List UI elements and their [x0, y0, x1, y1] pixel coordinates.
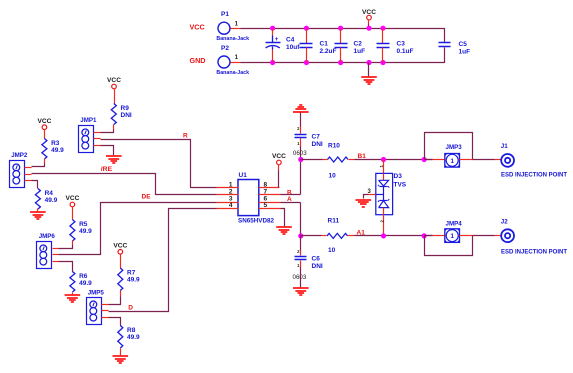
- svg-text:4: 4: [229, 202, 233, 209]
- wire A to A1 column: [281, 203, 301, 236]
- wire bottom rail GND: [241, 48, 445, 63]
- op-amp U1 SN65HVD82 body: [238, 172, 275, 224]
- wire B to B1 column: [281, 160, 301, 195]
- svg-text:2: 2: [229, 189, 233, 196]
- capacitor C5 1uF: [439, 41, 471, 56]
- ground (R6): [65, 295, 81, 302]
- svg-text:R11: R11: [328, 217, 340, 224]
- svg-text:C6: C6: [312, 255, 321, 262]
- junction dot A1/JMP4: [422, 233, 427, 238]
- svg-text:A1: A1: [357, 230, 366, 237]
- svg-text:1: 1: [450, 233, 454, 240]
- JMP2 pin stubs: [25, 168, 32, 181]
- svg-text:B1: B1: [358, 153, 367, 160]
- D3 pin3 stub and label: [367, 189, 375, 195]
- wire JMP1 pin3 to ground: [101, 146, 114, 156]
- wire top rail VCC: [241, 29, 445, 43]
- resistor R10 10: [328, 143, 355, 180]
- resistor R8 49.9: [118, 326, 140, 356]
- net label B: [287, 189, 292, 196]
- junction dots bottom rail: [270, 60, 386, 65]
- ground (R8): [113, 356, 129, 363]
- wire A1 to JMP4 pin1: [425, 235, 445, 237]
- U1 left pin stubs: [217, 188, 239, 209]
- capacitor C7 DNI: [295, 126, 323, 148]
- svg-text:JMP2: JMP2: [11, 152, 28, 159]
- junction dot B1/D3: [381, 157, 386, 162]
- svg-text:D3: D3: [394, 173, 403, 180]
- svg-text:49.9: 49.9: [51, 147, 64, 154]
- ground (C6): [293, 288, 309, 295]
- power symbol VCC (top rail): [362, 9, 376, 29]
- svg-text:C7: C7: [312, 133, 321, 140]
- svg-text:C1: C1: [320, 41, 329, 48]
- diode D3 TVS: [376, 160, 407, 215]
- svg-text:2.2uF: 2.2uF: [320, 48, 337, 55]
- wire R3 to JMP2 pin1: [32, 164, 45, 167]
- connector P2 Banana-Jack: [216, 45, 249, 76]
- wire JMP3 bypass loop: [425, 133, 473, 160]
- wire C7 to B1 junction: [300, 147, 302, 160]
- JMP6 pin stubs: [53, 249, 59, 262]
- net label D: [128, 305, 133, 312]
- svg-text:0603: 0603: [293, 274, 307, 281]
- ground (C7, inverted): [293, 105, 309, 112]
- svg-text:JMP5: JMP5: [88, 289, 105, 296]
- wire ground to C7: [300, 113, 302, 127]
- ground (D3): [356, 200, 372, 207]
- junction dot B1 left: [298, 157, 303, 162]
- C6 footprint label 0603: [293, 274, 307, 281]
- jumper JMP3: [445, 144, 462, 167]
- net label A: [287, 196, 292, 203]
- wire JMP3 to J1: [473, 159, 502, 161]
- wire JMP5 pin3 to R8: [109, 318, 121, 326]
- capacitor C3 0.1uF: [377, 29, 414, 63]
- svg-text:1uF: 1uF: [459, 49, 471, 56]
- svg-text:VCC: VCC: [362, 9, 376, 16]
- resistor R5 49.9: [70, 220, 92, 245]
- jumper JMP2: [10, 152, 28, 187]
- svg-text:/RE: /RE: [101, 166, 113, 173]
- svg-text:DNI: DNI: [312, 263, 323, 270]
- svg-text:TVS: TVS: [394, 182, 407, 189]
- svg-text:C5: C5: [459, 41, 468, 48]
- junction dot A1/D3: [381, 233, 386, 238]
- svg-text:8: 8: [264, 182, 268, 189]
- JMP3 pin2 stub: [460, 159, 473, 161]
- C7 footprint label 0603: [293, 150, 307, 157]
- jumper JMP4: [445, 220, 462, 242]
- U1 right pin numbers: [264, 182, 268, 210]
- D3 pin2 wire to A1: [380, 215, 385, 236]
- resistor R7 49.9: [118, 268, 140, 297]
- U1 right pin stubs: [259, 188, 281, 209]
- capacitor C4 10uf (polarized): [266, 29, 301, 63]
- svg-text:DE: DE: [142, 193, 152, 200]
- jumper JMP1: [79, 117, 98, 152]
- svg-text:P1: P1: [221, 11, 229, 18]
- capacitor C6 DNI: [295, 236, 323, 270]
- svg-text:Banana-Jack: Banana-Jack: [216, 36, 249, 42]
- wire C6 to ground: [300, 268, 302, 288]
- svg-text:49.9: 49.9: [45, 197, 58, 204]
- svg-text:R3: R3: [51, 140, 60, 147]
- svg-text:C2: C2: [354, 41, 363, 48]
- svg-text:VCC: VCC: [37, 118, 51, 125]
- net label B1: [358, 153, 367, 160]
- svg-text:0.1uF: 0.1uF: [397, 48, 414, 55]
- wire D3 pin3 to ground: [364, 195, 369, 199]
- net label VCC (P1): [190, 22, 205, 31]
- power symbol VCC (R5): [65, 195, 79, 219]
- junction dot B1/JMP3: [422, 157, 427, 162]
- wire B1 junction to R10: [301, 159, 328, 161]
- JMP4 pin2 stub: [460, 235, 473, 237]
- resistor R11 10: [327, 217, 355, 254]
- svg-text:VCC: VCC: [113, 243, 127, 250]
- svg-text:1: 1: [229, 182, 233, 189]
- resistor R4 49.9: [35, 189, 57, 212]
- svg-text:JMP4: JMP4: [446, 220, 463, 227]
- svg-text:D: D: [128, 305, 133, 312]
- wire A1 junction to R11: [301, 235, 327, 237]
- svg-text:1uF: 1uF: [354, 48, 366, 55]
- svg-text:R9: R9: [121, 105, 130, 112]
- resistor R3 49.9: [42, 139, 64, 164]
- svg-text:Banana-Jack: Banana-Jack: [216, 70, 249, 76]
- svg-text:10: 10: [329, 172, 337, 179]
- svg-text:R7: R7: [127, 269, 136, 276]
- wire R7 to JMP5 pin1: [109, 297, 121, 305]
- wire JMP4 to J2: [473, 235, 502, 237]
- connector J2: [501, 218, 568, 255]
- svg-text:1: 1: [450, 158, 454, 165]
- svg-text:J1: J1: [501, 143, 508, 150]
- svg-text:JMP6: JMP6: [39, 233, 56, 240]
- svg-text:ESD INJECTION POINT: ESD INJECTION POINT: [501, 173, 567, 179]
- svg-text:U1: U1: [239, 172, 248, 179]
- capacitor C1 2.2uF: [300, 29, 337, 63]
- U1 left pin numbers: [229, 182, 233, 210]
- ground (R4): [30, 212, 46, 219]
- svg-text:R8: R8: [127, 327, 136, 334]
- net label R: [183, 132, 188, 139]
- jumper JMP6: [37, 233, 56, 268]
- svg-text:GND: GND: [190, 56, 206, 65]
- svg-text:+: +: [275, 36, 279, 43]
- wire JMP6 pin3 to R6: [59, 262, 73, 272]
- svg-text:VCC: VCC: [107, 77, 121, 84]
- svg-text:R: R: [183, 132, 188, 139]
- wire net R from JMP1: [101, 140, 217, 188]
- wire net /RE from JMP2: [32, 174, 217, 195]
- svg-text:49.9: 49.9: [79, 228, 92, 235]
- svg-text:VCC: VCC: [65, 195, 79, 202]
- wire R10 to JMP3: [355, 159, 433, 161]
- resistor R6 49.9: [70, 272, 92, 295]
- ground (bottom rail): [361, 63, 377, 85]
- JMP1 pin stubs: [94, 133, 101, 146]
- svg-text:J2: J2: [501, 218, 508, 225]
- svg-text:C3: C3: [397, 41, 406, 48]
- svg-text:DNI: DNI: [312, 141, 323, 148]
- svg-text:SN65HVD82: SN65HVD82: [238, 218, 275, 225]
- wire JMP2 pin3 to R4: [32, 181, 38, 189]
- JMP5 pin stubs: [102, 305, 109, 318]
- svg-text:R6: R6: [79, 273, 88, 280]
- svg-text:5: 5: [264, 202, 268, 209]
- svg-text:DNI: DNI: [121, 112, 132, 119]
- connector P1 Banana-Jack: [216, 11, 249, 42]
- wire R5 to JMP6 pin1: [59, 245, 73, 249]
- svg-text:49.9: 49.9: [127, 334, 140, 341]
- junction dots top rail: [270, 26, 386, 31]
- wire JMP4 bypass loop: [425, 236, 473, 256]
- svg-text:R4: R4: [45, 190, 54, 197]
- net label DE: [142, 193, 152, 200]
- svg-text:VCC: VCC: [190, 22, 205, 31]
- power symbol VCC (R9): [107, 77, 121, 103]
- wire net DE from JMP6: [59, 203, 217, 255]
- wire R9 to JMP1 pin1: [101, 130, 114, 133]
- resistor R9 DNI: [111, 104, 132, 130]
- ground (JMP1): [106, 156, 122, 163]
- svg-text:P2: P2: [221, 45, 229, 52]
- svg-text:ESD INJECTION POINT: ESD INJECTION POINT: [501, 249, 567, 255]
- power symbol VCC (U1 pin8): [272, 153, 286, 187]
- svg-text:R10: R10: [328, 143, 340, 150]
- connector J1: [501, 143, 568, 179]
- svg-text:49.9: 49.9: [127, 276, 140, 283]
- svg-text:10: 10: [328, 247, 336, 254]
- capacitor C2 1uF: [335, 29, 366, 63]
- svg-text:A: A: [287, 196, 292, 203]
- svg-text:R5: R5: [79, 221, 88, 228]
- jumper JMP5: [87, 289, 105, 324]
- svg-text:JMP3: JMP3: [446, 144, 463, 151]
- power symbol VCC (R3): [37, 118, 51, 139]
- wire R11 to JMP4: [355, 235, 433, 237]
- net label A1: [357, 230, 366, 237]
- wire U1 pin5 to ground: [281, 209, 285, 227]
- net label /RE: [101, 166, 113, 173]
- wire B1 to JMP3 pin1: [425, 159, 445, 161]
- svg-text:49.9: 49.9: [79, 280, 92, 287]
- svg-text:10uf: 10uf: [286, 44, 300, 51]
- junction dot A1 left: [298, 233, 303, 238]
- ground (U1 pin5): [276, 227, 292, 234]
- svg-text:C4: C4: [286, 37, 295, 44]
- wire net D from JMP5: [109, 209, 217, 312]
- net label GND (P2): [190, 56, 206, 65]
- svg-text:7: 7: [264, 189, 268, 196]
- power symbol VCC (R7): [113, 243, 127, 269]
- svg-text:VCC: VCC: [272, 153, 286, 160]
- svg-text:JMP1: JMP1: [80, 117, 97, 124]
